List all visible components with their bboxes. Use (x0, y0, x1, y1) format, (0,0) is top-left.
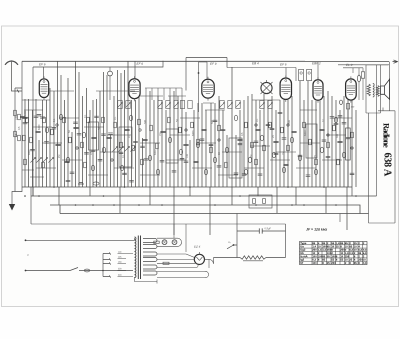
wire shield left edge (21, 61, 23, 187)
voltage table grid (300, 242, 368, 265)
dial lamp 1 (162, 240, 167, 245)
resistors and capacitors scatter (14, 110, 17, 116)
tube V6 EBF2 envelope (313, 80, 323, 100)
capacitor 0.5uF (259, 228, 262, 233)
wire lamp drops (174, 224, 186, 252)
cathode resistor EL3 (347, 104, 350, 110)
voltage selector (103, 254, 110, 277)
svg-text:0,5μF: 0,5μF (264, 227, 271, 230)
tube V3 EF9 cathode (206, 93, 210, 95)
wire right edge drop 1 (376, 65, 378, 196)
svg-text:8000: 8000 (192, 130, 195, 136)
network box (249, 195, 272, 208)
svg-text:250: 250 (331, 261, 336, 265)
junction dots texture (24, 195, 26, 197)
component above bus A 2 (93, 182, 99, 185)
tube V2 EF9 electrodes (130, 76, 139, 101)
wire top right branch (338, 64, 388, 66)
tube V2 EF9 cathode (132, 93, 136, 95)
wire riser to choke (285, 224, 287, 258)
wire left bus drop (30, 187, 32, 224)
tube V5 EF6 cathode (284, 93, 288, 95)
svg-text:8000: 8000 (38, 124, 41, 130)
resistor R anode tall (346, 128, 351, 160)
power transformer secondary heater loop 1 (143, 239, 157, 243)
wire vertical harness (25, 62, 356, 188)
oval components scatter (59, 114, 62, 120)
resistor screen EL3 (361, 72, 364, 78)
wire HT output (214, 257, 286, 259)
svg-text:1M: 1M (282, 152, 285, 155)
svg-text:500: 500 (288, 119, 291, 124)
IF transformer can (299, 70, 304, 81)
tube V1 EF6 electrodes (41, 76, 48, 100)
svg-text:8000: 8000 (304, 130, 307, 136)
dial lamp 2 (172, 240, 177, 245)
svg-text:Uₐ: Uₐ (228, 241, 231, 244)
coil box 5 (306, 124, 317, 158)
dial lamp loop (157, 238, 182, 246)
wire bus A step (351, 187, 353, 196)
svg-text:1M: 1M (159, 133, 162, 136)
power transformer secondary loop 3a (143, 265, 157, 269)
wire bus C (50, 205, 360, 214)
choke bar (243, 260, 263, 262)
wire OT secondary return (369, 113, 396, 223)
resistor 2 in network box (263, 199, 266, 204)
tube V6 EBF2 electrodes (314, 77, 322, 102)
mains terminal lower (25, 270, 27, 272)
wire inner shield left (32, 67, 34, 196)
wire right edge drop 2 (378, 62, 395, 111)
wire lower heater loop 1 (157, 263, 198, 267)
resistor grid EL3 (357, 75, 360, 82)
resistor in network box (253, 199, 256, 204)
switch on mains (70, 268, 78, 271)
fuse on mains (84, 269, 89, 272)
voltage table frame (300, 242, 368, 265)
ground (9, 204, 15, 211)
svg-text:EB 4: EB 4 (252, 61, 259, 65)
wire antenna lead (12, 62, 23, 91)
svg-text:EBF 2: EBF 2 (312, 61, 321, 65)
wire tall resistor leads (347, 110, 349, 187)
tube V1 EF6 cathode (42, 92, 46, 94)
antenna (5, 61, 18, 65)
voltage selector ticks (109, 252, 111, 277)
svg-text:EF 6: EF 6 (39, 62, 46, 66)
antenna lead tick (17, 90, 19, 93)
wire bus E lower (31, 214, 340, 225)
wire deep drops (33, 187, 347, 235)
voltage tap row (118, 254, 134, 277)
tube V1 EF6 envelope (39, 79, 48, 98)
coil box 4 (89, 122, 99, 150)
switch Uat contact (227, 245, 237, 249)
svg-text:EF 6: EF 6 (280, 63, 287, 67)
filter choke (240, 256, 266, 259)
svg-text:100: 100 (312, 261, 317, 265)
wire right edge drop 3 (394, 111, 396, 223)
wire mains upper (25, 239, 133, 241)
svg-text:8000: 8000 (28, 149, 31, 155)
coil box 1 (119, 127, 132, 167)
arrow top bus end (393, 60, 398, 63)
svg-text:8000: 8000 (24, 110, 27, 116)
tube V4 EB4 electrodes (261, 80, 273, 94)
wire left cathode line (12, 88, 22, 204)
svg-text:300: 300 (336, 133, 339, 138)
svg-text:≈: ≈ (27, 253, 29, 257)
svg-text:Uf: Uf (300, 261, 303, 265)
tube V3 EF9 electrodes (203, 77, 213, 101)
svg-text:100: 100 (186, 153, 189, 158)
power transformer core (138, 236, 140, 280)
tube V6 EBF2 cathode (316, 94, 320, 96)
svg-text:2M: 2M (58, 155, 61, 158)
node V3 grid (198, 72, 200, 74)
fuse on lamp loop (154, 241, 159, 243)
trimmer core boxes (118, 101, 122, 109)
power transformer secondary HT loop 1 (143, 252, 157, 256)
wire bus D (60, 205, 369, 214)
wire V1 grid lead (43, 67, 45, 78)
svg-text:EF 9: EF 9 (136, 62, 143, 66)
wire interconnects (22, 91, 352, 177)
resistor field zigzag (367, 84, 370, 96)
svg-text:2M: 2M (250, 155, 253, 158)
wire mains lower (25, 270, 133, 272)
svg-text:EZ 4: EZ 4 (194, 245, 201, 249)
rectifier electrodes (196, 252, 202, 260)
wire EL3 top links (343, 68, 363, 100)
wire primary leads (133, 238, 135, 240)
wire bus A (22, 186, 352, 188)
tube V4 EB4 diode envelope (261, 82, 272, 93)
grid row line (145, 88, 182, 100)
wire lower heater loop 2 (157, 259, 209, 277)
svg-text:300: 300 (144, 119, 147, 124)
coil box 3 (229, 138, 242, 178)
power transformer primary winding (135, 237, 136, 278)
rectifier tube EZ4 (194, 254, 204, 264)
power transformer secondary loop 3b (143, 271, 157, 275)
svg-text:8000: 8000 (154, 149, 157, 155)
wire V6 top lead (317, 62, 319, 80)
coil box 2 (166, 129, 178, 163)
tiny circles scatter (56, 124, 58, 126)
rectifier loop wire (205, 258, 214, 264)
wire V3 grid cap lead (186, 58, 227, 91)
svg-text:638 A: 638 A (381, 153, 392, 177)
wire inner shield top (33, 61, 163, 67)
output transformer secondary zigzag (376, 86, 379, 97)
power transformer secondary HT loop 2 (143, 258, 157, 262)
wire V2 top lead (134, 61, 136, 78)
wire center drop (236, 214, 238, 258)
wire bus B (31, 195, 377, 197)
wire transformer bottom return (135, 277, 158, 284)
tube V2 EF9 envelope (129, 79, 140, 99)
heater loop component (163, 262, 169, 264)
output transformer primary coil (373, 84, 374, 98)
mains terminal upper (25, 239, 27, 241)
wire V3 shield corner (199, 62, 208, 112)
svg-text:EL 3: EL 3 (346, 63, 353, 67)
component above bus A 1 (78, 183, 84, 185)
wire HT to rectifier (157, 254, 195, 260)
tube V7 EL3 electrodes (347, 76, 355, 102)
wire AVC line (227, 68, 296, 82)
coupling cap EL3 grid (340, 100, 343, 104)
wire top bus right (305, 61, 389, 63)
svg-text:EF 9: EF 9 (210, 62, 217, 66)
loudspeaker (381, 79, 390, 99)
svg-text:Radione: Radione (382, 123, 392, 148)
wire smoothing line (237, 230, 286, 232)
oscillator coupling cap (108, 71, 113, 76)
svg-text:JF = 128 kHz: JF = 128 kHz (306, 228, 327, 232)
wire top bus (22, 60, 305, 62)
wire speaker connects (366, 65, 389, 113)
svg-text:100: 100 (15, 115, 18, 120)
power transformer secondary heater loop 2 (143, 245, 157, 249)
wire output stage box (366, 65, 381, 113)
tube V7 EL3 envelope (346, 79, 357, 100)
tube V5 EF6 electrodes (281, 76, 290, 102)
extra capacitors texture (23, 112, 355, 182)
tube V7 EL3 cathode (349, 94, 353, 96)
tube V5 EF6 envelope (280, 78, 291, 99)
tube V3 EF9 envelope (202, 79, 214, 98)
svg-text:0,3: 0,3 (363, 261, 367, 265)
